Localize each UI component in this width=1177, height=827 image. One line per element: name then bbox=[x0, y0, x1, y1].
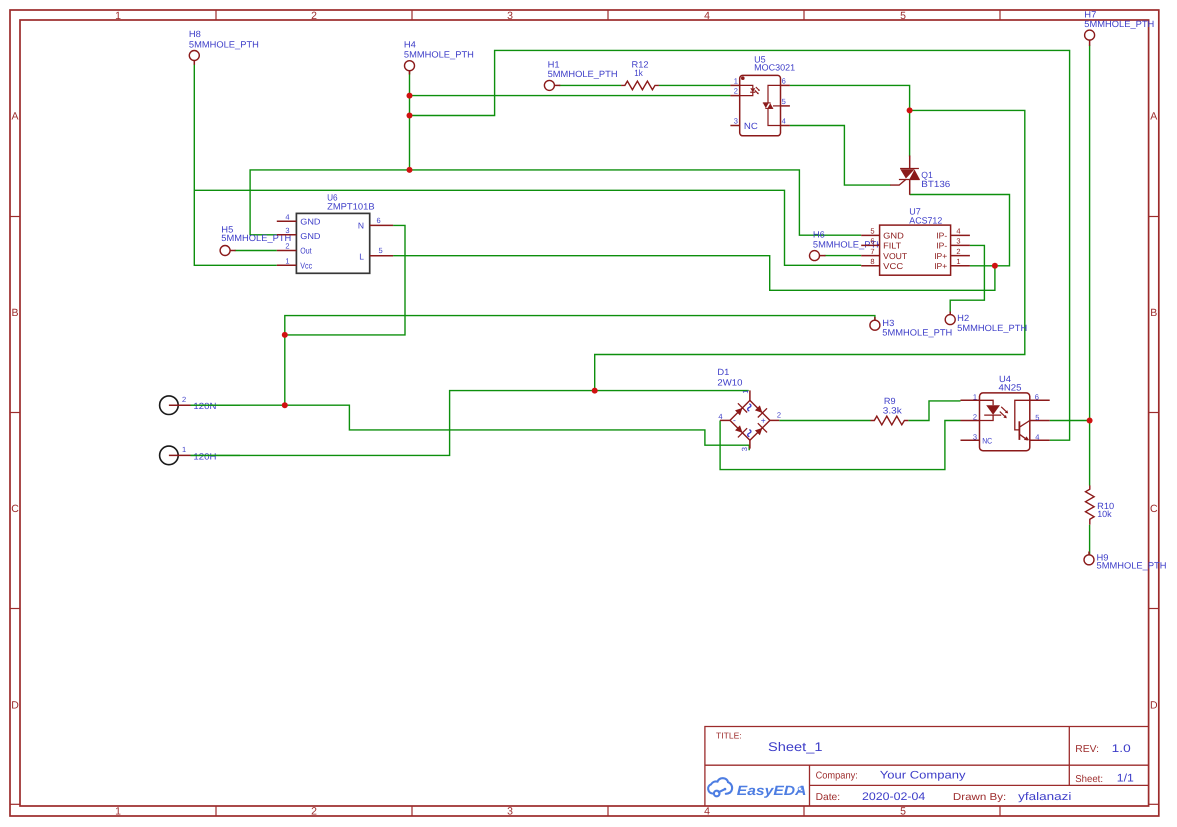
svg-text:3: 3 bbox=[973, 432, 977, 441]
svg-text:+: + bbox=[761, 415, 766, 425]
wire branch to H3 bbox=[285, 316, 875, 335]
svg-text:H4: H4 bbox=[404, 39, 416, 49]
svg-text:Drawn By:: Drawn By: bbox=[953, 792, 1006, 803]
U6 right pin stubs 6,5 bbox=[370, 224, 393, 226]
svg-text:5: 5 bbox=[870, 227, 874, 236]
svg-text:4: 4 bbox=[956, 227, 960, 236]
svg-text:4: 4 bbox=[704, 10, 710, 22]
svg-text:4: 4 bbox=[718, 412, 722, 421]
connector pin 120H bbox=[160, 446, 179, 465]
op-amp U4 4N25 box bbox=[980, 393, 1030, 451]
svg-text:D1: D1 bbox=[717, 367, 729, 377]
wire H8 vertical to U6 Vcc pin1 bbox=[194, 65, 276, 266]
svg-text:GND: GND bbox=[300, 217, 320, 227]
svg-text:2: 2 bbox=[285, 242, 289, 251]
svg-text:Vcc: Vcc bbox=[300, 260, 313, 270]
D1 diode top-right bbox=[755, 405, 763, 413]
svg-text:6: 6 bbox=[870, 237, 874, 246]
svg-text:Your Company: Your Company bbox=[880, 770, 966, 782]
wire Q1 junction to 120H rail riser bbox=[595, 110, 1025, 390]
svg-text:EasyEDA: EasyEDA bbox=[737, 783, 807, 798]
U5 internal triac output bbox=[763, 85, 781, 125]
op-amp U5 MOC3021 box bbox=[740, 75, 781, 135]
svg-text:4: 4 bbox=[285, 212, 289, 221]
svg-text:5: 5 bbox=[379, 246, 383, 255]
U5 pin1 marker dot bbox=[741, 76, 745, 80]
svg-text:2020-02-04: 2020-02-04 bbox=[862, 791, 925, 803]
svg-text:ZMPT101B: ZMPT101B bbox=[327, 202, 375, 212]
diode bridge D1 2W10 diamond bbox=[730, 400, 770, 440]
svg-text:D: D bbox=[1150, 699, 1158, 711]
svg-text:3: 3 bbox=[740, 447, 749, 451]
svg-text:Company:: Company: bbox=[816, 770, 858, 781]
svg-text:3: 3 bbox=[734, 117, 738, 126]
U4 right pin stubs 6,5,4 bbox=[1030, 399, 1050, 401]
resistor R10 bbox=[1086, 485, 1095, 524]
U6 left pin stubs 4,3,2,1 bbox=[277, 220, 297, 222]
U5 right pin stubs 6,5,4 bbox=[781, 84, 790, 86]
mounting hole H6 bbox=[810, 251, 820, 261]
svg-text:2: 2 bbox=[973, 413, 977, 422]
op-amp U7 ACS712 box bbox=[880, 225, 951, 275]
svg-text:IP+: IP+ bbox=[934, 251, 947, 261]
wire over 120N label bbox=[191, 404, 241, 406]
svg-text:H2: H2 bbox=[957, 313, 969, 323]
svg-text:TITLE:: TITLE: bbox=[716, 731, 742, 741]
wire D1 pin2 to R9 bbox=[779, 420, 870, 422]
U4 internal transistor bbox=[1015, 400, 1030, 440]
svg-text:4N25: 4N25 bbox=[999, 383, 1022, 393]
svg-text:H3: H3 bbox=[882, 318, 894, 328]
U7 right pin stubs 4,3,2,1 bbox=[951, 234, 970, 236]
U4 left pin stubs 1,2,3 bbox=[961, 399, 980, 401]
svg-text:2: 2 bbox=[777, 411, 781, 420]
svg-text:10k: 10k bbox=[1097, 509, 1112, 519]
wire U5 pin6 to Q1 T2 bbox=[790, 85, 910, 156]
svg-text:6: 6 bbox=[782, 76, 786, 85]
svg-text:1: 1 bbox=[734, 76, 738, 85]
resistor R12 bbox=[621, 81, 659, 90]
svg-text:NC: NC bbox=[982, 437, 992, 446]
svg-text:5MMHOLE_PTH: 5MMHOLE_PTH bbox=[882, 328, 952, 338]
D1 diode bottom-right bbox=[755, 428, 763, 435]
wire D1 pin4 to U4 pin2 bbox=[720, 421, 960, 470]
svg-text:1.0: 1.0 bbox=[1112, 743, 1131, 755]
svg-text:Sheet:: Sheet: bbox=[1075, 774, 1103, 785]
svg-text:1: 1 bbox=[115, 805, 121, 817]
svg-text:3.3k: 3.3k bbox=[883, 405, 903, 415]
svg-text:Out: Out bbox=[300, 245, 312, 255]
EasyEDA logo registered mark bbox=[798, 787, 801, 790]
junction N net bbox=[282, 332, 288, 338]
svg-text:2: 2 bbox=[311, 805, 317, 817]
wire H8 branch to U7 VCC pin8 bbox=[194, 190, 861, 265]
svg-text:A: A bbox=[11, 110, 18, 122]
svg-text:FILT: FILT bbox=[883, 241, 901, 251]
svg-text:1: 1 bbox=[741, 390, 750, 394]
svg-text:H8: H8 bbox=[189, 29, 201, 39]
svg-text:GND: GND bbox=[883, 231, 904, 241]
svg-text:2: 2 bbox=[956, 247, 960, 256]
wire H4 to U5 pin2 bbox=[410, 95, 731, 97]
D1 pin stubs bbox=[749, 390, 751, 400]
junction H4/GND rail bbox=[407, 167, 413, 173]
D1 diode bottom-left bbox=[735, 425, 743, 432]
wire 120H to D1 pin1 bbox=[191, 391, 749, 456]
svg-text:IP+: IP+ bbox=[934, 261, 947, 271]
svg-text:1/1: 1/1 bbox=[1117, 772, 1134, 784]
wire Q1 T1 to U7 IP+ pin1 bbox=[910, 195, 1010, 266]
mounting hole H9 bbox=[1084, 555, 1094, 565]
svg-text:3: 3 bbox=[507, 805, 513, 817]
svg-text:2: 2 bbox=[182, 395, 186, 404]
wire H1 to R12 bbox=[559, 84, 621, 86]
wire GND rail to U6 GND pin3 bbox=[250, 170, 861, 235]
svg-text:H1: H1 bbox=[548, 60, 560, 70]
svg-text:6: 6 bbox=[377, 216, 381, 225]
svg-text:3: 3 bbox=[956, 237, 960, 246]
svg-text:120N: 120N bbox=[193, 401, 216, 411]
svg-text:5MMHOLE_PTH: 5MMHOLE_PTH bbox=[404, 50, 474, 60]
mounting hole H2 bbox=[945, 315, 955, 325]
resistor R9 bbox=[871, 416, 909, 425]
svg-text:3: 3 bbox=[285, 226, 289, 235]
wire 120N junction riser bbox=[284, 335, 286, 405]
mounting hole H4 bbox=[405, 61, 415, 71]
svg-text:C: C bbox=[11, 503, 19, 515]
svg-text:A: A bbox=[1150, 110, 1157, 122]
svg-text:MOC3021: MOC3021 bbox=[754, 63, 795, 73]
wire R10 to H9 bbox=[1089, 525, 1091, 555]
svg-text:4: 4 bbox=[704, 805, 710, 817]
svg-text:GND: GND bbox=[300, 231, 320, 241]
op-amp U6 ZMPT101B box bbox=[296, 213, 369, 273]
svg-text:L: L bbox=[359, 251, 364, 261]
svg-text:VOUT: VOUT bbox=[883, 251, 907, 261]
U5 internal LED bbox=[740, 85, 760, 95]
wire H4 vertical bbox=[409, 72, 411, 170]
svg-text:IP-: IP- bbox=[936, 241, 947, 251]
svg-text:6: 6 bbox=[1035, 393, 1039, 402]
svg-text:Sheet_1: Sheet_1 bbox=[768, 740, 823, 754]
svg-text:5MMHOLE_PTH: 5MMHOLE_PTH bbox=[189, 40, 259, 50]
svg-text:Date:: Date: bbox=[816, 792, 841, 803]
svg-text:NC: NC bbox=[744, 121, 758, 131]
svg-text:5MMHOLE_PTH: 5MMHOLE_PTH bbox=[957, 323, 1027, 333]
svg-text:B: B bbox=[1150, 307, 1157, 319]
wire U7 IP- pin3 to H2 bbox=[950, 245, 984, 314]
svg-text:5: 5 bbox=[900, 805, 906, 817]
svg-text:C: C bbox=[1150, 503, 1158, 515]
mounting hole H1 bbox=[544, 80, 554, 90]
junction 120N bbox=[282, 402, 288, 408]
U5 left pin stubs 1,2,3 bbox=[730, 84, 739, 86]
wire H5 to U6 Out pin2 bbox=[235, 250, 277, 252]
wire H7 vertical to R10 bbox=[1089, 45, 1091, 486]
svg-text:1: 1 bbox=[182, 445, 186, 454]
wire R12 to U5 pin1 bbox=[659, 84, 731, 86]
EasyEDA logo cloud bbox=[708, 778, 732, 796]
mounting hole H8 bbox=[189, 51, 199, 61]
svg-text:1: 1 bbox=[115, 10, 121, 22]
D1 diode top-left bbox=[735, 408, 743, 416]
svg-text:2: 2 bbox=[311, 10, 317, 22]
junction 120H bbox=[592, 388, 598, 394]
wire H6 to U7 VOUT pin7 bbox=[825, 255, 862, 257]
connector pin 120N bbox=[160, 396, 179, 415]
svg-text:H7: H7 bbox=[1084, 9, 1096, 19]
svg-text:120H: 120H bbox=[193, 451, 216, 461]
svg-text:5MMHOLE_PTH: 5MMHOLE_PTH bbox=[548, 69, 618, 79]
junction U4 pin5/H7 net bbox=[1087, 418, 1093, 424]
wire U5 pin4 to Q1 gate bbox=[790, 126, 891, 186]
svg-text:VCC: VCC bbox=[883, 261, 903, 271]
svg-text:2: 2 bbox=[734, 87, 738, 96]
svg-text:-: - bbox=[733, 415, 736, 425]
wire U6 N pin6 down to 120N net bbox=[285, 225, 405, 335]
svg-text:2W10: 2W10 bbox=[717, 377, 742, 387]
mounting hole H3 bbox=[870, 320, 880, 330]
svg-text:H6: H6 bbox=[813, 229, 825, 239]
wire R9 to U4 pin1 bbox=[908, 401, 960, 421]
junction H4/U5 pin2 bbox=[407, 93, 413, 99]
svg-text:4: 4 bbox=[782, 117, 786, 126]
svg-text:1: 1 bbox=[973, 393, 977, 402]
svg-text:3: 3 bbox=[507, 10, 513, 22]
junction H4/top rail bbox=[407, 113, 413, 119]
title block frame bbox=[705, 727, 1149, 806]
svg-text:yfalanazi: yfalanazi bbox=[1018, 791, 1071, 803]
svg-text:5: 5 bbox=[1035, 413, 1039, 422]
svg-text:4: 4 bbox=[1035, 432, 1039, 441]
mounting hole H5 bbox=[220, 246, 230, 256]
svg-text:5: 5 bbox=[900, 10, 906, 22]
junction U7 pin1 bbox=[992, 263, 998, 269]
svg-text:1: 1 bbox=[956, 257, 960, 266]
wire U6 L pin5 to U7 IP+ net bbox=[393, 256, 995, 291]
wire over 120H label bbox=[191, 454, 241, 456]
svg-text:B: B bbox=[11, 307, 18, 319]
svg-text:5MMHOLE_PTH: 5MMHOLE_PTH bbox=[1097, 561, 1167, 571]
wire H4 branch top rail to U4 pin4 bbox=[410, 50, 1070, 440]
U4 internal LED bbox=[980, 400, 1009, 420]
svg-text:5: 5 bbox=[782, 97, 786, 106]
svg-text:BT136: BT136 bbox=[921, 179, 950, 189]
D1 AC marks bbox=[748, 404, 751, 411]
svg-text:N: N bbox=[358, 220, 364, 230]
svg-text:ACS712: ACS712 bbox=[909, 216, 942, 226]
svg-text:IP-: IP- bbox=[936, 231, 947, 241]
transistor Q1 triac BT136 bbox=[890, 156, 920, 195]
svg-text:D: D bbox=[11, 699, 19, 711]
svg-text:5MMHOLE_PTH: 5MMHOLE_PTH bbox=[1084, 19, 1154, 29]
wire U4 pin5 to H7 net bbox=[1050, 420, 1090, 422]
svg-text:1: 1 bbox=[285, 257, 289, 266]
svg-text:REV:: REV: bbox=[1075, 744, 1099, 755]
mounting hole H7 bbox=[1085, 30, 1095, 40]
svg-text:7: 7 bbox=[870, 247, 874, 256]
U7 left pin stubs 5,6,7,8 bbox=[861, 234, 879, 236]
svg-text:1k: 1k bbox=[634, 68, 643, 78]
junction Q1 T2 bbox=[907, 107, 913, 113]
svg-text:8: 8 bbox=[870, 257, 874, 266]
wire 120N to D1 pin3 bbox=[191, 405, 750, 450]
